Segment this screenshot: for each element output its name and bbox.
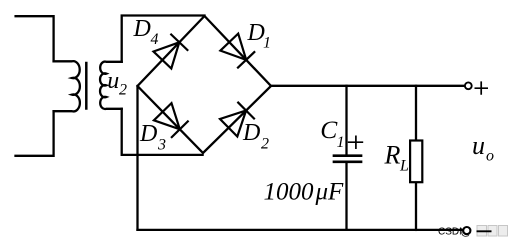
capacitor C1 branch wire bottom: [345, 163, 347, 230]
bridge diamond wires: [138, 16, 272, 153]
plus sign at top terminal: [475, 81, 489, 94]
capacitor C1 plates: [334, 154, 361, 157]
transformer primary lead bottom: [16, 111, 54, 156]
plus sign at capacitor: [348, 136, 363, 150]
label RL: [384, 141, 410, 175]
transformer primary winding: [54, 61, 80, 111]
label D3: [139, 121, 166, 154]
svg-text:L: L: [399, 158, 409, 175]
svg-text:o: o: [486, 148, 494, 165]
svg-text:1000μF: 1000μF: [264, 179, 345, 206]
label u2: [107, 68, 127, 99]
wire secondary top to bridge top node: [122, 16, 205, 62]
capacitor C1 branch wire top: [345, 86, 347, 154]
wire secondary bottom to bridge bottom node: [122, 109, 203, 155]
diode D3: [154, 103, 188, 137]
transformer core: [85, 63, 88, 109]
label D2: [242, 120, 269, 153]
wire bottom rail: [138, 229, 464, 231]
watermark CSDN: [438, 226, 508, 239]
wire bridge negative node down: [136, 86, 138, 230]
svg-text:2: 2: [119, 82, 127, 99]
resistor RL body: [410, 141, 422, 183]
label C1: [320, 115, 344, 151]
resistor RL branch wire bottom: [415, 183, 417, 230]
svg-text:4: 4: [151, 31, 159, 48]
diode D1: [220, 34, 254, 68]
svg-text:1: 1: [263, 35, 271, 52]
transformer secondary winding: [100, 62, 122, 109]
svg-text:u: u: [107, 68, 119, 94]
output terminal bottom: [463, 227, 470, 234]
svg-text:1: 1: [337, 134, 345, 151]
label uo: [472, 131, 494, 165]
svg-text:2: 2: [261, 136, 269, 153]
resistor RL branch wire top: [415, 86, 417, 140]
svg-text:D: D: [139, 121, 157, 147]
svg-text:D: D: [242, 120, 260, 146]
svg-text:3: 3: [157, 137, 166, 154]
minus sign at bottom terminal: [477, 230, 492, 232]
label D1: [247, 20, 272, 52]
label D4: [133, 16, 159, 48]
diode D2: [220, 103, 254, 137]
svg-text:R: R: [384, 141, 401, 170]
diode D4: [154, 35, 188, 69]
wire top rail: [271, 85, 465, 87]
svg-text:D: D: [133, 16, 151, 42]
svg-text:u: u: [472, 131, 485, 160]
transformer primary lead top: [16, 16, 54, 61]
output terminal top: [465, 82, 472, 89]
